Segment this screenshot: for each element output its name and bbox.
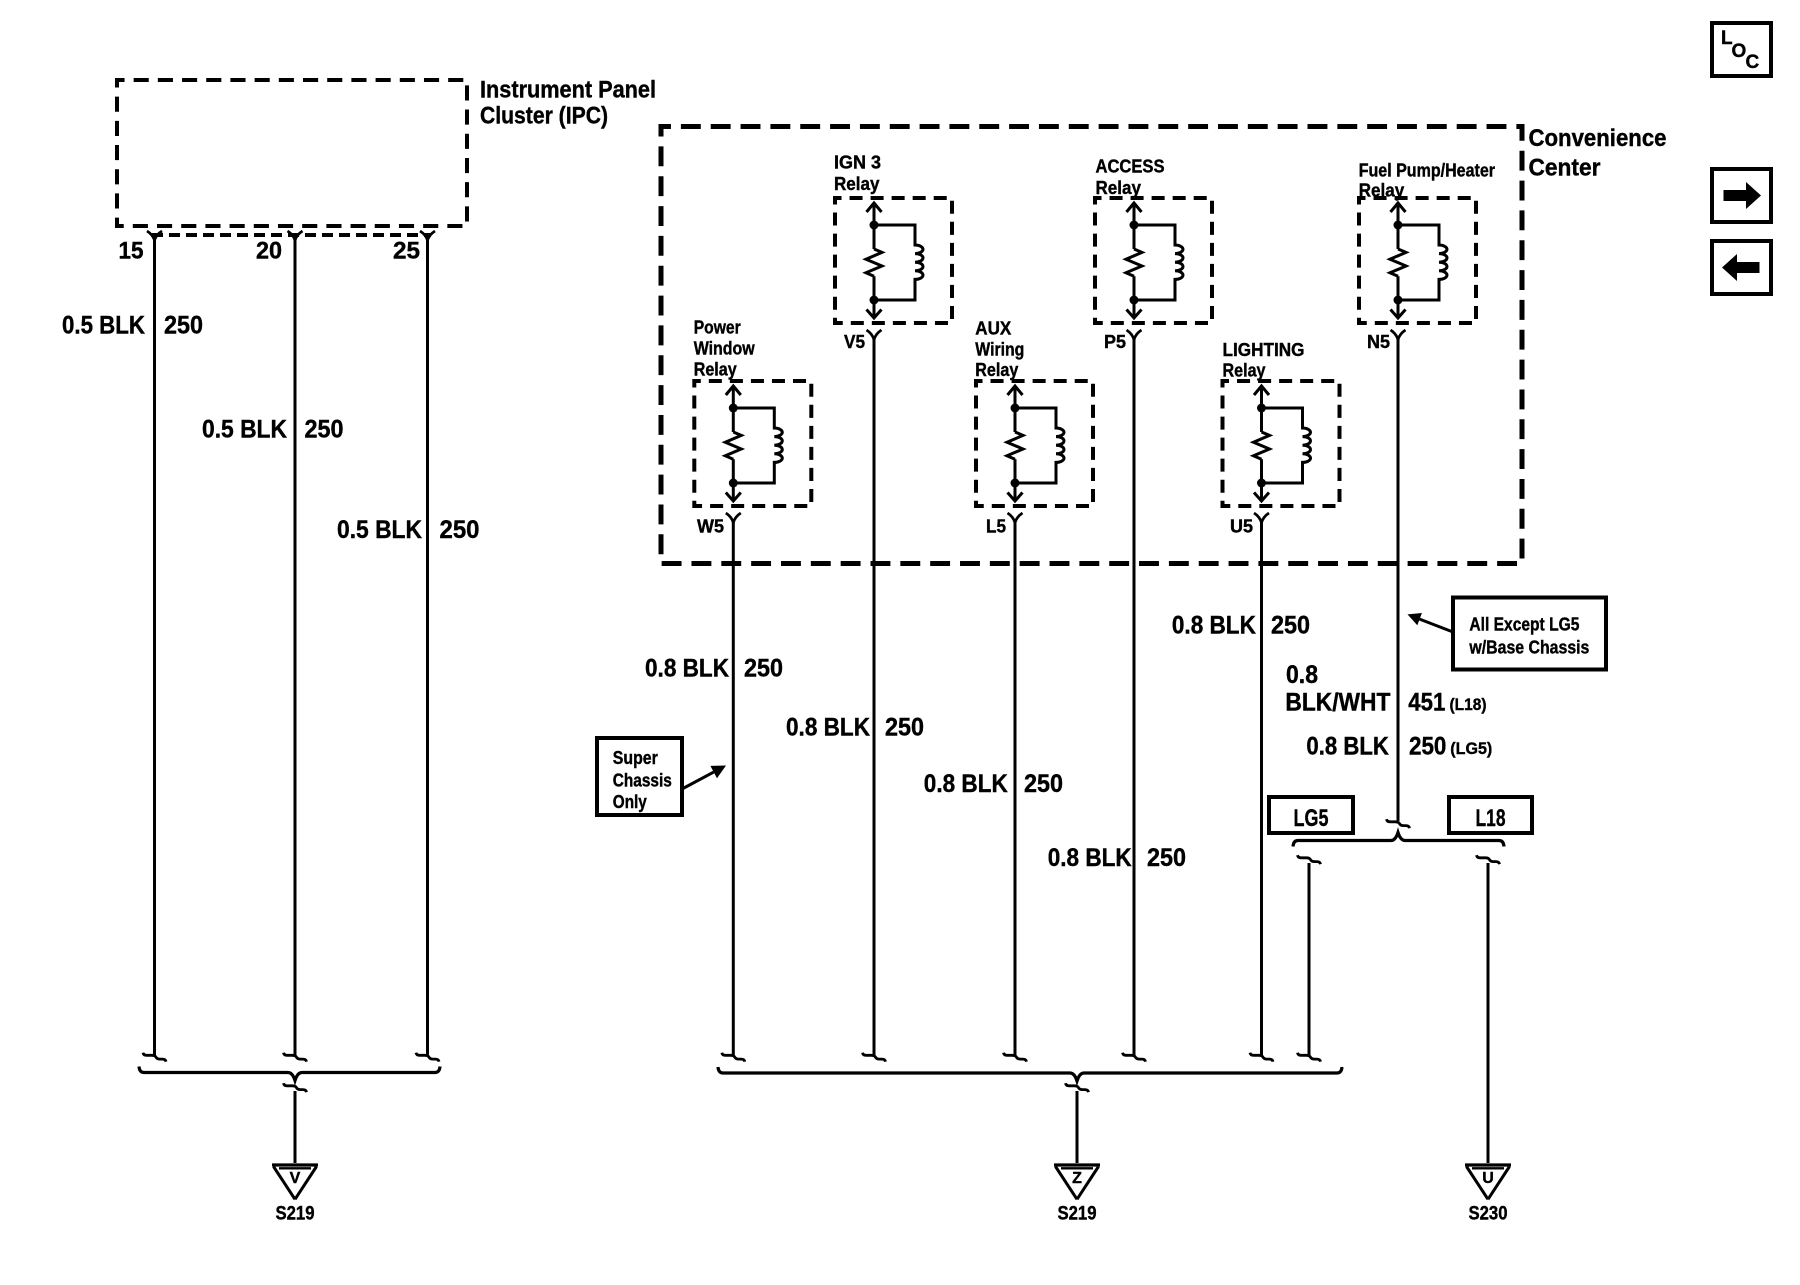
svg-text:Only: Only <box>613 792 647 812</box>
svg-text:Power: Power <box>694 318 741 338</box>
svg-text:20: 20 <box>256 238 282 265</box>
svg-text:LIGHTING: LIGHTING <box>1223 340 1305 360</box>
svg-text:0.5 BLK: 0.5 BLK <box>62 312 145 340</box>
svg-text:250: 250 <box>744 655 783 683</box>
svg-text:L5: L5 <box>986 517 1006 537</box>
svg-text:V: V <box>290 1170 301 1187</box>
svg-text:Window: Window <box>694 339 756 359</box>
svg-text:BLK/WHT: BLK/WHT <box>1285 689 1390 717</box>
svg-text:(L18): (L18) <box>1450 695 1487 714</box>
svg-text:O: O <box>1732 41 1747 62</box>
svg-text:15: 15 <box>119 238 144 265</box>
svg-text:250: 250 <box>885 714 924 742</box>
svg-text:Z: Z <box>1072 1170 1082 1187</box>
svg-text:All Except LG5: All Except LG5 <box>1469 615 1579 635</box>
svg-text:V5: V5 <box>844 332 865 352</box>
svg-text:Relay: Relay <box>975 360 1018 380</box>
svg-text:w/Base Chassis: w/Base Chassis <box>1469 638 1590 658</box>
svg-text:ACCESS: ACCESS <box>1096 157 1165 177</box>
svg-text:250: 250 <box>440 516 480 544</box>
svg-text:451: 451 <box>1408 689 1445 717</box>
svg-text:S219: S219 <box>276 1204 315 1225</box>
svg-text:(LG5): (LG5) <box>1450 739 1492 758</box>
svg-text:P5: P5 <box>1104 332 1126 352</box>
svg-text:250: 250 <box>1271 612 1310 640</box>
svg-text:Super: Super <box>613 748 658 768</box>
svg-text:Center: Center <box>1529 155 1601 182</box>
svg-text:0.8 BLK: 0.8 BLK <box>645 655 729 683</box>
svg-text:Relay: Relay <box>1096 178 1142 198</box>
svg-text:25: 25 <box>393 238 420 265</box>
svg-text:0.8 BLK: 0.8 BLK <box>1048 844 1132 872</box>
svg-text:0.8 BLK: 0.8 BLK <box>786 714 870 742</box>
svg-text:C: C <box>1746 52 1760 73</box>
svg-text:Instrument Panel: Instrument Panel <box>480 77 656 104</box>
svg-text:0.5 BLK: 0.5 BLK <box>202 416 287 444</box>
svg-text:250: 250 <box>305 416 344 444</box>
svg-text:0.8 BLK: 0.8 BLK <box>1306 733 1389 761</box>
svg-text:N5: N5 <box>1367 332 1390 352</box>
svg-text:AUX: AUX <box>975 319 1011 339</box>
svg-text:250: 250 <box>1147 844 1186 872</box>
svg-text:0.8 BLK: 0.8 BLK <box>924 770 1008 798</box>
svg-text:250: 250 <box>1024 770 1063 798</box>
svg-text:S230: S230 <box>1469 1204 1508 1225</box>
svg-text:0.8: 0.8 <box>1286 661 1318 689</box>
svg-text:IGN 3: IGN 3 <box>834 153 881 173</box>
svg-text:Chassis: Chassis <box>613 771 672 791</box>
svg-text:250: 250 <box>1409 733 1446 761</box>
svg-text:U5: U5 <box>1230 517 1253 537</box>
svg-text:Relay: Relay <box>1223 361 1266 381</box>
svg-text:Relay: Relay <box>694 359 737 379</box>
svg-text:Cluster (IPC): Cluster (IPC) <box>480 103 608 130</box>
svg-text:LG5: LG5 <box>1294 805 1329 832</box>
svg-text:W5: W5 <box>697 517 724 537</box>
svg-text:L18: L18 <box>1476 805 1506 832</box>
svg-text:Fuel Pump/Heater: Fuel Pump/Heater <box>1359 161 1495 181</box>
svg-text:Convenience: Convenience <box>1529 125 1667 152</box>
svg-text:Relay: Relay <box>1359 181 1405 201</box>
svg-text:S219: S219 <box>1058 1204 1097 1225</box>
svg-text:Relay: Relay <box>834 174 880 194</box>
svg-text:0.5 BLK: 0.5 BLK <box>337 516 422 544</box>
svg-text:0.8 BLK: 0.8 BLK <box>1172 612 1256 640</box>
svg-text:U: U <box>1482 1170 1494 1187</box>
svg-text:250: 250 <box>164 312 203 340</box>
svg-text:Wiring: Wiring <box>975 340 1024 360</box>
